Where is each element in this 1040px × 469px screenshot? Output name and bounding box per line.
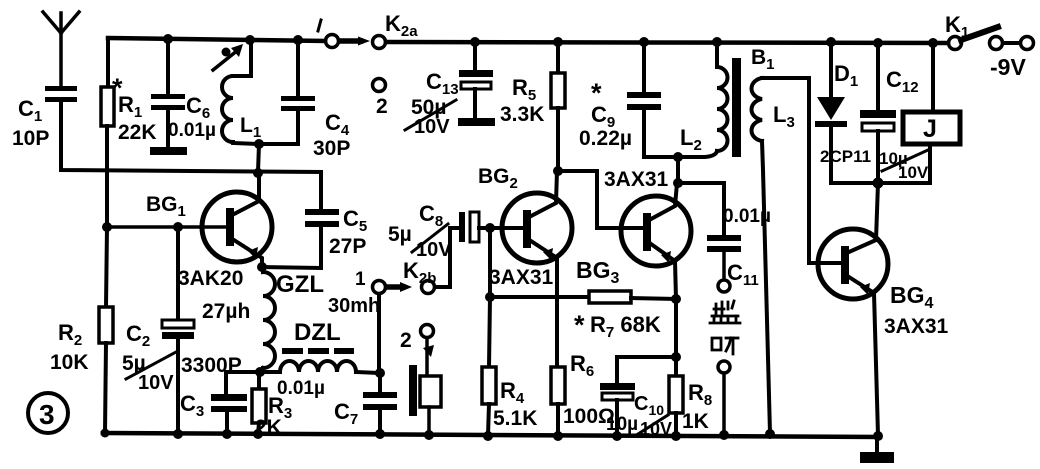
svg-text:0.01µ: 0.01µ bbox=[277, 378, 325, 399]
capacitor C9 0.22u bbox=[579, 42, 678, 157]
wire detector node bbox=[676, 157, 680, 183]
resistor R3 2K bbox=[252, 372, 292, 439]
capacitor C2 5u/10V bbox=[122, 227, 194, 434]
capacitor C11 0.01u bbox=[707, 206, 771, 289]
node R5 collector junction bbox=[553, 166, 563, 176]
svg-text:2: 2 bbox=[400, 329, 412, 352]
node GZL bottom bbox=[255, 367, 265, 377]
capacitor C8 5u/10V bbox=[388, 201, 479, 261]
wire top rail left segment bbox=[108, 38, 325, 41]
ground bar under C13 bbox=[458, 118, 495, 126]
wire BG2 collector to BG3 base bbox=[558, 171, 643, 228]
label -9V bbox=[990, 54, 1026, 80]
inductor L2 bbox=[678, 42, 728, 157]
svg-text:27P: 27P bbox=[329, 235, 366, 258]
transformer core B1 bbox=[732, 46, 775, 157]
svg-text:3AX31: 3AX31 bbox=[489, 266, 554, 289]
switch K1 bbox=[945, 12, 1034, 50]
svg-text:10V: 10V bbox=[138, 372, 174, 394]
resistor R5 3.3K bbox=[500, 42, 565, 171]
relay J bbox=[903, 43, 960, 183]
svg-text:5.1K: 5.1K bbox=[493, 407, 537, 430]
node BG3 emitter junction bbox=[671, 294, 681, 304]
resistor R2 10K bbox=[50, 227, 113, 433]
node 1 terminal with K2b bbox=[355, 258, 436, 373]
core dashes of DZL bbox=[282, 348, 354, 354]
node dots on top rail bbox=[163, 34, 938, 48]
node dots on bottom rail bbox=[101, 429, 884, 442]
wire top rail right segment bbox=[386, 42, 948, 43]
switch K2a bbox=[318, 11, 418, 49]
svg-text:0.22µ: 0.22µ bbox=[579, 127, 632, 150]
capacitor C12 10u/10V bbox=[860, 43, 929, 183]
svg-text:22K: 22K bbox=[118, 121, 157, 144]
inductor DZL 30mh bbox=[280, 295, 380, 373]
svg-text:10V: 10V bbox=[898, 163, 929, 182]
svg-text:-9V: -9V bbox=[990, 54, 1026, 80]
node tank junction bbox=[253, 139, 264, 178]
wire bottom rail bbox=[103, 433, 880, 437]
node detector junction bbox=[673, 152, 683, 188]
node emitter BG1 bbox=[257, 262, 267, 272]
capacitor C5 27P bbox=[262, 172, 367, 268]
svg-text:DZL: DZL bbox=[294, 319, 341, 346]
node C10 top junction bbox=[671, 352, 681, 362]
wire base of BG1 bbox=[107, 225, 226, 229]
wire relay node bbox=[831, 181, 930, 185]
capacitor C4 30P bbox=[259, 40, 350, 160]
transistor BG2 3AX31 bbox=[478, 165, 572, 367]
resistor R8 1K bbox=[669, 299, 712, 436]
capacitor C7 0.01u bbox=[277, 373, 397, 434]
svg-text:2CP11: 2CP11 bbox=[820, 147, 871, 166]
inductor L1 (variable) bbox=[222, 40, 261, 144]
earphone element bbox=[409, 365, 441, 435]
diode D1 2CP11 bbox=[815, 42, 871, 183]
capacitor C3 3300P bbox=[180, 354, 247, 434]
svg-text:27µh: 27µh bbox=[202, 300, 250, 323]
wire C1 to tank node bbox=[61, 102, 321, 172]
wire BG3 collector node to C11 bbox=[678, 183, 724, 235]
svg-text:0.01µ: 0.01µ bbox=[723, 206, 771, 227]
arrow of variable L1 bbox=[213, 44, 243, 70]
svg-text:2: 2 bbox=[376, 95, 388, 118]
svg-text:10µ: 10µ bbox=[606, 414, 638, 435]
svg-text:3.3K: 3.3K bbox=[500, 103, 544, 126]
svg-text:1K: 1K bbox=[682, 410, 709, 433]
svg-text:5µ: 5µ bbox=[388, 223, 412, 246]
resistor R6 100ohm bbox=[551, 351, 615, 436]
resistor R1 22K bbox=[101, 38, 157, 227]
capacitor C10 10u/10V bbox=[600, 357, 676, 439]
capacitor C13 50u/10V bbox=[405, 42, 493, 138]
svg-text:3: 3 bbox=[39, 399, 55, 430]
ground bbox=[860, 437, 894, 463]
node 2 terminal (top, open) bbox=[373, 79, 388, 119]
transistor BG1 3AK20 bbox=[146, 172, 272, 290]
figure number 3 bbox=[28, 393, 68, 433]
node monitor terminal upper bbox=[718, 280, 730, 292]
wire K2b to C8 bbox=[435, 228, 459, 287]
capacitor C1 10P bbox=[12, 86, 77, 150]
wire GZL bottom node bbox=[226, 370, 280, 374]
resistor R7 68K bbox=[490, 291, 676, 341]
node monitor terminal lower bbox=[718, 361, 730, 373]
ground bar under C6 bbox=[150, 147, 187, 155]
svg-text:R7 68K: R7 68K bbox=[590, 312, 661, 341]
wire monitor terminal to ground bbox=[722, 373, 726, 434]
node base junctions bbox=[102, 222, 183, 232]
svg-text:10P: 10P bbox=[12, 127, 49, 150]
wire tank to collector bbox=[258, 144, 259, 172]
transistor BG3 3AX31 bbox=[576, 168, 691, 299]
node relay junction bbox=[873, 178, 884, 189]
label GZL value bbox=[0, 0, 2, 2]
inductor L3 bbox=[752, 78, 843, 433]
svg-text:1: 1 bbox=[355, 269, 366, 290]
label jian (monitor) bbox=[710, 301, 740, 323]
inductor GZL 27uh bbox=[202, 267, 324, 372]
node 2 terminal (earphone) bbox=[400, 325, 434, 377]
svg-text:*: * bbox=[574, 310, 585, 340]
svg-text:30mh: 30mh bbox=[328, 295, 380, 317]
svg-text:30P: 30P bbox=[313, 137, 350, 160]
node BG2 base junction bbox=[485, 223, 495, 233]
svg-text:10V: 10V bbox=[414, 116, 450, 138]
svg-text:10K: 10K bbox=[50, 351, 89, 374]
svg-text:3AK20: 3AK20 bbox=[178, 267, 243, 290]
node DZL right junction bbox=[375, 368, 385, 378]
resistor R4 5.1K bbox=[482, 228, 537, 436]
antenna bbox=[43, 12, 79, 86]
label ting (listen) bbox=[712, 338, 738, 354]
svg-text:3AX31: 3AX31 bbox=[884, 315, 949, 338]
svg-text:GZL: GZL bbox=[276, 271, 324, 298]
svg-text:J: J bbox=[923, 115, 937, 143]
svg-text:3AX31: 3AX31 bbox=[604, 168, 669, 191]
svg-text:10V: 10V bbox=[416, 239, 452, 261]
capacitor C6 0.01u bbox=[151, 39, 216, 147]
wire C8 to BG2 base bbox=[479, 226, 523, 230]
svg-text:0.01µ: 0.01µ bbox=[168, 120, 216, 141]
node R4 top junction bbox=[485, 292, 495, 302]
transistor BG4 3AX31 bbox=[818, 183, 949, 435]
